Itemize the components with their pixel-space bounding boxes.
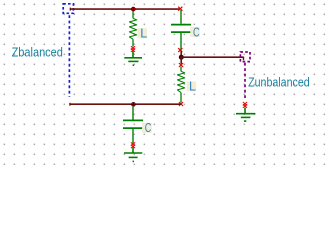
svg-text:C: C [145, 121, 152, 135]
svg-text:L: L [189, 80, 196, 94]
wire stub node B to L2 [180, 57, 182, 64]
port P1 body dashed line [68, 15, 70, 97]
pin x on node C [132, 103, 135, 106]
port P2 Zunbalanced (dashed purple rect) [240, 52, 250, 62]
port P2 body dashed line [244, 63, 246, 101]
capacitor C2 [123, 107, 143, 144]
pin x P2 bottom / ground pin [243, 102, 247, 108]
svg-text:L: L [140, 26, 147, 40]
pin x L2 top [179, 63, 183, 67]
svg-text:C: C [193, 25, 200, 39]
pin x C2 bottom / ground pin [131, 142, 135, 148]
svg-text:Zbalanced: Zbalanced [12, 45, 63, 59]
wire W1 top net [70, 8, 180, 11]
capacitor C1 [171, 10, 191, 49]
ground G1 [124, 51, 142, 65]
wire W2 bottom net [70, 103, 181, 106]
pin x L2 bottom [179, 102, 183, 106]
value label background L1 [137, 28, 147, 38]
value label background C2 [142, 123, 152, 133]
ground G2 [124, 147, 142, 161]
wire W3 mid net [181, 57, 244, 61]
port P1 Zbalanced (dashed blue rect) [63, 4, 73, 14]
svg-text:Zunbalanced: Zunbalanced [248, 75, 310, 89]
value label background C1 [190, 27, 200, 37]
inductor L1 [129, 11, 136, 46]
junction node B (181,57) [179, 55, 184, 60]
pin x L1 bottom / ground pin [131, 46, 135, 52]
ground G3 [236, 108, 255, 122]
value label background L2 [187, 81, 197, 91]
pin x C1 bottom [178, 48, 182, 52]
junction node C (133,104) [131, 102, 136, 107]
junction node A (133,9) [131, 7, 136, 12]
wire stub C1 to node B [180, 51, 182, 58]
inductor L2 [177, 67, 184, 103]
pin x C1 top (wire W1 end) [178, 7, 182, 11]
pin x on node A [132, 8, 135, 11]
